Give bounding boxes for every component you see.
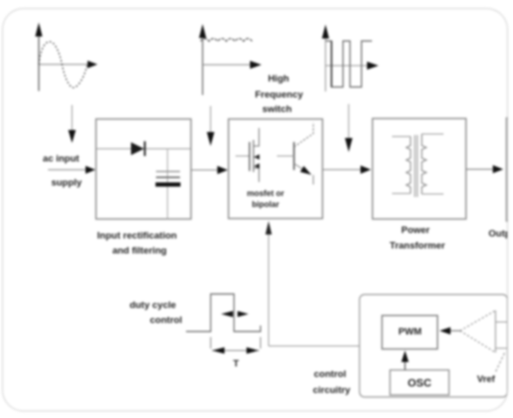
svg-text:Transformer: Transformer — [390, 241, 446, 252]
svg-text:ac input: ac input — [43, 154, 80, 165]
svg-text:bipolar: bipolar — [252, 200, 280, 209]
svg-text:control: control — [150, 315, 182, 326]
svg-text:mosfet or: mosfet or — [247, 189, 285, 198]
svg-text:Power: Power — [401, 225, 430, 236]
svg-text:switch: switch — [262, 104, 292, 115]
svg-text:Frequency: Frequency — [255, 90, 304, 101]
svg-text:duty cycle: duty cycle — [130, 300, 176, 311]
svg-text:circuitry: circuitry — [313, 385, 351, 396]
svg-text:T: T — [233, 359, 239, 370]
svg-text:supply: supply — [51, 178, 82, 189]
svg-text:and filtering: and filtering — [112, 246, 167, 257]
svg-text:OSC: OSC — [408, 378, 432, 390]
svg-text:control: control — [314, 369, 346, 380]
svg-text:Input rectification: Input rectification — [97, 231, 177, 242]
svg-text:Output: Output — [489, 229, 513, 240]
svg-text:Vref: Vref — [477, 374, 496, 385]
svg-text:PWM: PWM — [398, 327, 421, 338]
svg-text:High: High — [268, 74, 289, 85]
